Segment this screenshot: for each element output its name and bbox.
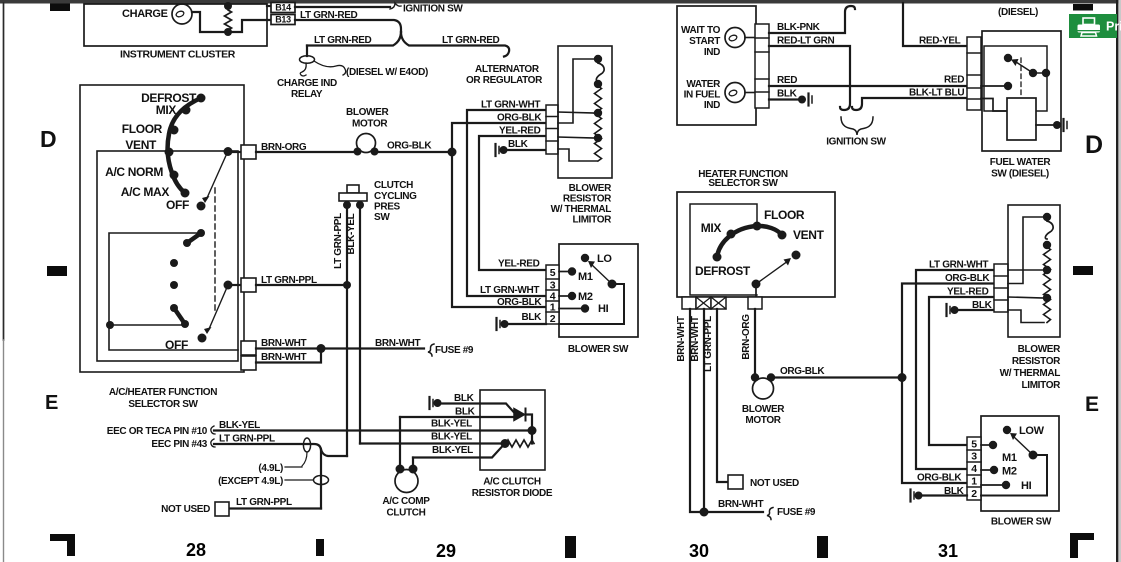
connector B14: [271, 3, 295, 13]
resistor element (left blower resistor): [595, 86, 602, 161]
node MIX (right): [727, 230, 736, 239]
svg-text:BLK: BLK: [777, 89, 798, 100]
svg-text:D: D: [40, 126, 56, 152]
wire RED indicator to fuel water sw: [769, 85, 967, 87]
registration tick bottom 3: [817, 536, 828, 558]
internal wire YEL-RED to tap2 (right): [1008, 297, 1044, 298]
connector squiggle EEC pin 43: [211, 439, 215, 447]
svg-text:FLOOR: FLOOR: [764, 208, 805, 222]
dashed detent (fuel water sw): [1020, 58, 1022, 97]
internal wire BLK to resistor bottom (right): [1008, 310, 1044, 323]
svg-text:RELAY: RELAY: [291, 89, 323, 100]
svg-text:BLOWER: BLOWER: [1018, 344, 1061, 355]
frame: left page edge line: [3, 3, 5, 340]
registration tick bottom 1: [316, 539, 324, 556]
registration tick bottom 2: [565, 536, 576, 558]
wire a/c clutch right terminal riser: [412, 458, 414, 468]
blower sw pin column (right): [967, 437, 981, 500]
blower resistor box (right): [1008, 205, 1060, 337]
svg-text:LT GRN-RED: LT GRN-RED: [314, 35, 372, 46]
connector BRN-ORG: [228, 151, 241, 153]
node DEFROST: [197, 94, 206, 103]
svg-text:E: E: [45, 392, 58, 414]
svg-text:ALTERNATOR: ALTERNATOR: [475, 64, 540, 75]
svg-text:RESISTOR: RESISTOR: [563, 194, 612, 205]
svg-text:BLK: BLK: [455, 407, 476, 418]
heater function selector box (right): [677, 192, 835, 297]
wire BLK ground to resistor: [503, 149, 546, 151]
wire BRN-ORG drop to motor: [754, 309, 756, 377]
svg-text:SELECTOR SW: SELECTOR SW: [708, 178, 778, 189]
svg-text:E: E: [1085, 393, 1099, 416]
switch arm with arrow: [1016, 62, 1033, 73]
svg-text:LO: LO: [597, 253, 612, 265]
wire BRN-WHT drop 2: [703, 309, 705, 512]
svg-text:A/C MAX: A/C MAX: [121, 185, 170, 199]
wire LT GRN-PPL selector to clutch drop: [256, 284, 347, 286]
wire LT GRN-WHT resistor to pin4 (right): [916, 270, 994, 469]
branch to clutch cycling drop: [321, 449, 347, 456]
svg-text:RED: RED: [777, 75, 797, 86]
wire to NOT USED box: [229, 507, 321, 509]
node A/C MAX: [181, 189, 190, 198]
svg-text:BLK: BLK: [454, 393, 475, 404]
registration tick mid-left: [47, 266, 67, 276]
wire squiggle to diesel note: [314, 61, 346, 75]
node DEFROST (right): [713, 253, 722, 262]
svg-text:CYCLING: CYCLING: [374, 191, 417, 202]
wiper arm to LOW (right): [1014, 437, 1033, 455]
internal wire ORG-BLK to thermal top: [558, 59, 594, 123]
svg-text:A/C/HEATER FUNCTION: A/C/HEATER FUNCTION: [109, 387, 217, 398]
svg-text:FUEL WATER: FUEL WATER: [990, 157, 1052, 168]
frame: right grey margin: [1118, 0, 1121, 562]
connector squiggle ignition sw: [390, 3, 401, 9]
registration tick mid-right: [1073, 266, 1093, 275]
svg-text:(4.9L): (4.9L): [258, 463, 283, 474]
svg-text:2: 2: [550, 313, 556, 325]
svg-text:(EXCEPT 4.9L): (EXCEPT 4.9L): [218, 476, 283, 487]
wire BRN-WHT drop 1: [690, 309, 763, 512]
svg-text:B13: B13: [275, 15, 291, 25]
pin1 wire to HI: [559, 308, 581, 310]
wire BLK-PNK to ignition: [769, 6, 855, 33]
svg-text:BLK-PNK: BLK-PNK: [777, 22, 821, 33]
svg-text:VENT: VENT: [793, 228, 825, 242]
node resistor tap 2: [594, 134, 602, 142]
frame: right page edge dark line: [1116, 0, 1118, 562]
svg-text:BRN-WHT: BRN-WHT: [690, 316, 701, 362]
blower resistor connector strip (left): [546, 105, 558, 154]
lower contact lever 2: [174, 308, 185, 324]
node LT GRN-PPL join selector: [343, 281, 351, 289]
svg-text:M1: M1: [578, 271, 593, 283]
internal wire BLK to resistor bottom: [558, 149, 597, 161]
a/c heater selector lower section box: [109, 233, 238, 350]
wire LT GRN-PPL EEC pin43: [214, 444, 321, 509]
wiper arm to LO: [592, 265, 612, 284]
wire charge ind relay drop: [306, 46, 308, 57]
ignition sw brace: [841, 117, 873, 135]
connector squiggle fuse 9 (right): [767, 508, 773, 520]
svg-text:VENT: VENT: [125, 138, 157, 152]
blower sw box (right): [981, 416, 1059, 511]
wiper internal path to pin2: [559, 284, 624, 324]
svg-text:SW: SW: [374, 212, 390, 223]
wire LT GRN-PPL drop to not used: [717, 309, 728, 482]
svg-text:29: 29: [436, 541, 456, 561]
wire diode cathode to junction: [526, 415, 533, 431]
svg-text:5: 5: [971, 439, 977, 451]
svg-text:BRN-ORG: BRN-ORG: [741, 314, 752, 360]
thermal limitor link (right): [1045, 221, 1053, 239]
node: resistor bottom junction: [224, 28, 232, 36]
wire RED-YEL feed from top: [903, 3, 967, 46]
rotary arc (mode positions): [168, 98, 201, 193]
connector squiggle fuse 9: [428, 344, 434, 356]
svg-text:LT GRN-PPL: LT GRN-PPL: [219, 434, 275, 445]
wire LT GRN-PPL clutch sw drop: [346, 205, 348, 456]
wire ORG-BLK junction down to blower sw pin 1: [452, 152, 546, 307]
node LO: [581, 254, 589, 262]
wiper from BRN-ORG junction to OFF: [207, 151, 228, 198]
thermal limitor link: [596, 63, 604, 81]
svg-text:ORG-BLK: ORG-BLK: [945, 273, 990, 284]
fuel water sw inner contact frame: [984, 46, 1047, 111]
svg-text:WATER: WATER: [686, 79, 721, 90]
internal wire LT GRN-WHT to tap1: [558, 112, 595, 113]
svg-text:EEC PIN #43: EEC PIN #43: [151, 439, 207, 450]
svg-text:HI: HI: [1021, 480, 1032, 492]
svg-text:BLOWER SW: BLOWER SW: [568, 344, 629, 355]
svg-text:Print: Print: [1106, 20, 1121, 34]
svg-text:NOT USED: NOT USED: [750, 478, 799, 489]
wire RED pin to contact: [981, 85, 1008, 87]
svg-text:ORG-BLK: ORG-BLK: [387, 141, 432, 152]
svg-text:DEFROST: DEFROST: [695, 264, 751, 278]
node RED contact: [1004, 82, 1012, 90]
svg-text:RESISTOR DIODE: RESISTOR DIODE: [472, 488, 553, 499]
node fuel sw top-left: [1004, 54, 1012, 62]
svg-text:A/C CLUTCH: A/C CLUTCH: [483, 477, 541, 488]
wire BLK ground to pin2: [504, 323, 546, 325]
svg-text:30: 30: [689, 541, 709, 561]
svg-text:EEC OR TECA PIN #10: EEC OR TECA PIN #10: [107, 426, 208, 437]
svg-text:BRN-WHT: BRN-WHT: [261, 352, 307, 363]
wire YEL-RED resistor to blower sw pin 5: [479, 136, 546, 270]
node BRN-WHT join: [317, 344, 326, 353]
svg-text:W/ THERMAL: W/ THERMAL: [551, 204, 612, 215]
dashed detent line: [214, 188, 216, 314]
svg-text:1: 1: [550, 302, 556, 314]
svg-text:BLK: BLK: [972, 300, 993, 311]
svg-text:MOTOR: MOTOR: [352, 119, 388, 130]
svg-text:YEL-RED: YEL-RED: [947, 287, 989, 298]
ground (a/c clutch BLK): [428, 397, 430, 409]
svg-text:LT GRN-WHT: LT GRN-WHT: [929, 260, 988, 271]
node resistor left: [501, 439, 510, 448]
wire ORG-BLK motor to junction: [374, 151, 452, 153]
svg-text:LIMITOR: LIMITOR: [1022, 380, 1062, 391]
wiper internal path to pin2 (right): [981, 455, 1047, 496]
svg-text:28: 28: [186, 540, 206, 560]
connector LT GRN-PPL: [228, 284, 241, 286]
svg-text:BLK-YEL: BLK-YEL: [346, 213, 357, 254]
a/c heater selector inner box: [97, 151, 238, 361]
wire BLK-YEL clutch sw drop: [359, 205, 361, 444]
svg-text:NOT USED: NOT USED: [161, 504, 210, 515]
charge ind relay tail hook: [300, 63, 306, 76]
wire lower common: [110, 324, 183, 326]
svg-text:M2: M2: [1002, 466, 1017, 478]
svg-text:M1: M1: [1002, 452, 1017, 464]
node ORG-BLK junction: [448, 148, 457, 157]
wire BLK row2 to diode anode: [400, 416, 514, 418]
node tap2 (right): [1043, 294, 1051, 302]
blower motor (right): [753, 378, 774, 399]
wire Y left branch: [307, 32, 401, 46]
svg-text:YEL-RED: YEL-RED: [498, 259, 540, 270]
fuel water sw connector strip: [967, 37, 981, 110]
svg-text:B14: B14: [275, 3, 291, 13]
wire LT GRN-WHT resistor to blower sw pin 4: [467, 110, 546, 296]
svg-text:RED-YEL: RED-YEL: [919, 36, 961, 47]
ground (blower sw pin2): [495, 318, 497, 330]
svg-text:BRN-WHT: BRN-WHT: [375, 338, 421, 349]
svg-text:BLOWER: BLOWER: [569, 183, 612, 194]
svg-text:FUSE #9: FUSE #9: [435, 345, 474, 356]
instrument cluster box: [84, 4, 267, 46]
svg-text:BRN-WHT: BRN-WHT: [676, 316, 687, 362]
node LOW: [1003, 426, 1011, 434]
wire B13 LT GRN-RED with split Y: [295, 20, 401, 32]
blower resistor box (left): [558, 46, 612, 178]
blower motor (left): [357, 134, 376, 153]
wire Y right branch: [401, 32, 509, 57]
svg-text:LT GRN-WHT: LT GRN-WHT: [481, 100, 540, 111]
node BRN-ORG junction: [224, 147, 233, 156]
svg-text:BLOWER: BLOWER: [346, 107, 389, 118]
svg-text:BLK-YEL: BLK-YEL: [432, 445, 473, 456]
frame: top bar: [0, 0, 1121, 4]
svg-text:IND: IND: [704, 100, 720, 111]
registration corner bottom-right: [1070, 533, 1094, 558]
a/c comp clutch motor: [395, 470, 418, 493]
svg-text:WAIT TO: WAIT TO: [681, 25, 721, 36]
registration tick top-left: [50, 4, 70, 12]
pin5 wire to M1: [559, 271, 568, 273]
svg-text:LT GRN-RED: LT GRN-RED: [300, 10, 358, 21]
fuel water sw box: [982, 31, 1061, 151]
svg-text:1: 1: [971, 476, 977, 488]
svg-text:A/C COMP: A/C COMP: [382, 496, 430, 507]
connector B13: [271, 15, 295, 25]
charge indicator lamp: [172, 4, 192, 24]
wire lamp to resistor bottom: [192, 12, 271, 32]
svg-text:FLOOR: FLOOR: [122, 122, 163, 136]
svg-text:W/ THERMAL: W/ THERMAL: [1000, 368, 1061, 379]
connector ellipse EXCEPT 4.9L: [285, 479, 313, 481]
svg-text:YEL-RED: YEL-RED: [499, 126, 541, 137]
svg-text:ORG-BLK: ORG-BLK: [780, 366, 825, 377]
connector NOT USED (right page): [728, 475, 743, 489]
ground (right blower sw pin2): [909, 490, 911, 502]
svg-text:BLK-YEL: BLK-YEL: [219, 420, 260, 431]
connector ellipse 4.9L: [303, 438, 310, 452]
wire sensor to ground: [1036, 124, 1054, 126]
svg-text:SW (DIESEL): SW (DIESEL): [991, 169, 1049, 180]
node A/C NORM: [170, 171, 179, 180]
ground (right resistor BLK): [945, 304, 947, 316]
svg-text:RESISTOR: RESISTOR: [1012, 356, 1061, 367]
connector BRN-WHT 1: [241, 341, 256, 355]
svg-text:3: 3: [971, 451, 977, 463]
blower sw box (left): [559, 244, 638, 337]
svg-text:BRN-WHT: BRN-WHT: [718, 499, 764, 510]
wire BLK ground to diode: [437, 404, 515, 414]
internal wire YEL-RED to tap2: [558, 137, 595, 138]
connector ellipse charge ind relay: [300, 56, 315, 64]
wire ORG-BLK motor to resistor junction: [771, 376, 902, 378]
wait to start lamp: [725, 28, 745, 48]
svg-text:LT GRN-RED: LT GRN-RED: [442, 35, 500, 46]
a/c heater selector outer box: [80, 85, 244, 372]
resistor (a/c clutch): [506, 440, 534, 447]
svg-text:ORG-BLK: ORG-BLK: [917, 473, 962, 484]
registration tick top-right: [1073, 4, 1093, 11]
svg-text:5: 5: [550, 267, 556, 279]
node VENT: [165, 148, 174, 157]
wire ORG-BLK resistor to pin1 (right): [902, 284, 994, 484]
rotary arc (right selector): [717, 226, 782, 257]
svg-text:LT GRN-WHT: LT GRN-WHT: [480, 285, 539, 296]
pin1 wire to HI (right): [981, 484, 1002, 486]
svg-text:IND: IND: [704, 47, 720, 58]
svg-text:ORG-BLK: ORG-BLK: [497, 297, 542, 308]
a/c clutch resistor diode box: [480, 390, 545, 470]
svg-text:CLUTCH: CLUTCH: [386, 508, 425, 519]
blower sw pin column (left): [546, 265, 559, 324]
ground (fuel water sw): [1053, 121, 1061, 129]
wire YEL-RED resistor to pin5 (right): [929, 297, 994, 445]
wire B14 to ignition sw: [295, 6, 390, 8]
svg-text:BLK: BLK: [508, 139, 529, 150]
selector connector row: [682, 297, 696, 309]
svg-text:START: START: [689, 36, 720, 47]
heater selector inner frame: [690, 204, 757, 295]
wait to start / water in fuel indicator box: [677, 6, 756, 125]
node BRN-WHT fuse join (right): [700, 508, 709, 517]
resistor element (right): [1044, 247, 1051, 323]
clutch cycling pres sw body: [347, 185, 359, 193]
node OFF (upper): [197, 202, 206, 211]
svg-text:BRN-WHT: BRN-WHT: [261, 338, 307, 349]
right resistor connector strip: [994, 264, 1008, 312]
svg-text:LT GRN-PPL: LT GRN-PPL: [333, 213, 344, 269]
svg-text:OFF: OFF: [165, 338, 188, 352]
wire BRN-WHT to fuse 9: [256, 347, 424, 349]
svg-text:RED: RED: [944, 75, 964, 86]
print button: [1069, 14, 1121, 38]
svg-text:OR REGULATOR: OR REGULATOR: [466, 75, 543, 86]
indicator connector strip: [755, 24, 769, 108]
wire BRN-ORG selector to motor: [256, 151, 358, 153]
wire BLK-YEL row3 from a/c clutch: [413, 446, 503, 458]
wire BLK ground to pin2 (right): [918, 494, 967, 496]
svg-text:MOTOR: MOTOR: [745, 415, 781, 426]
wire BLK-YEL EEC pin10 row: [214, 429, 528, 431]
svg-text:PRES: PRES: [374, 202, 401, 213]
node resistor tap 1: [594, 109, 602, 117]
wiper from LT GRN-PPL junction to OFF lower: [209, 285, 228, 329]
tail 4.9L: [302, 452, 307, 466]
pin4 wire to M2: [559, 295, 568, 297]
connector BRN-WHT 2: [241, 356, 256, 370]
svg-text:(DIESEL W/ E4OD): (DIESEL W/ E4OD): [346, 67, 428, 78]
wire ORG-BLK junction up to resistor: [452, 123, 546, 152]
lower contact lever 1: [187, 233, 201, 243]
svg-text:IN FUEL: IN FUEL: [684, 90, 721, 101]
wire a/c clutch left terminal riser: [399, 417, 401, 467]
connector squiggle EEC pin 10: [211, 426, 215, 434]
internal wire ORG-BLK to thermal top (right): [1008, 217, 1043, 284]
svg-text:IGNITION SW: IGNITION SW: [826, 137, 886, 148]
svg-text:2: 2: [971, 488, 977, 500]
svg-text:CHARGE: CHARGE: [122, 8, 168, 20]
svg-text:BLK-LT BLU: BLK-LT BLU: [909, 88, 964, 99]
svg-text:FUSE #9: FUSE #9: [777, 507, 816, 518]
svg-text:BLOWER: BLOWER: [742, 404, 785, 415]
diode D1: [514, 409, 525, 421]
wire BRN-WHT 2 riser: [256, 349, 321, 363]
svg-text:SELECTOR SW: SELECTOR SW: [128, 399, 198, 410]
wiper to connector drop: [755, 284, 757, 297]
internal wire LT GRN-WHT to tap1 (right): [1008, 269, 1044, 271]
node: resistor top junction: [224, 2, 232, 10]
svg-text:(DIESEL): (DIESEL): [998, 7, 1038, 18]
wire BLK-YEL row2 (clutch sw) to resistor: [360, 442, 502, 444]
wire BLK to ground: [769, 98, 800, 100]
water in fuel lamp: [725, 83, 745, 103]
svg-text:LT GRN-PPL: LT GRN-PPL: [236, 497, 292, 508]
svg-text:BLK-YEL: BLK-YEL: [431, 419, 472, 430]
svg-text:MIX: MIX: [701, 221, 722, 235]
svg-text:MIX: MIX: [156, 103, 177, 117]
wire B14 connector stub: [267, 5, 271, 7]
node MIX: [182, 106, 191, 115]
svg-text:BLOWER SW: BLOWER SW: [991, 517, 1052, 528]
fuel water sensor body: [1007, 98, 1036, 140]
node ORG-BLK junction (right): [898, 373, 907, 382]
svg-text:ORG-BLK: ORG-BLK: [497, 113, 542, 124]
svg-text:IGNITION SW: IGNITION SW: [403, 4, 463, 15]
svg-text:CHARGE IND: CHARGE IND: [277, 78, 337, 89]
wire RED-LT GRN to ignition: [769, 46, 850, 110]
svg-text:LT GRN-PPL: LT GRN-PPL: [703, 316, 714, 372]
node BLK-YEL junction: [528, 426, 537, 435]
svg-text:A/C NORM: A/C NORM: [105, 165, 163, 179]
svg-text:HI: HI: [598, 303, 609, 315]
resistor R (instrument cluster): [225, 6, 232, 32]
wiper arm (right selector): [756, 261, 788, 284]
wire BLK-LT BLU pin step to sensor: [981, 99, 1007, 112]
wire junction down to resistor right: [531, 431, 533, 444]
svg-text:BLK: BLK: [521, 312, 542, 323]
svg-text:LOW: LOW: [1019, 425, 1045, 437]
ground (water in fuel BLK): [798, 96, 806, 104]
svg-text:31: 31: [938, 541, 958, 561]
node FLOOR: [170, 126, 179, 135]
